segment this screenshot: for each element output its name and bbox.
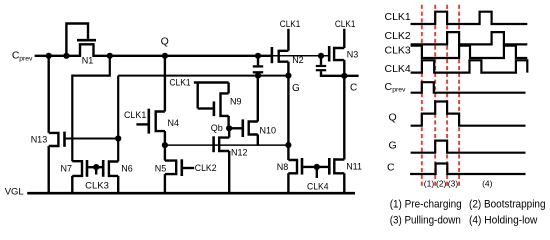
svg-text:prev: prev: [19, 56, 33, 63]
svg-text:N9: N9: [230, 96, 242, 106]
svg-text:N8: N8: [277, 162, 289, 172]
svg-text:CLK4: CLK4: [385, 63, 411, 75]
svg-text:CLK2: CLK2: [195, 163, 217, 173]
svg-text:N12: N12: [231, 148, 248, 158]
svg-text:N11: N11: [346, 161, 362, 171]
svg-text:CLK1: CLK1: [385, 11, 411, 23]
svg-text:CLK1: CLK1: [280, 19, 301, 29]
svg-text:N3: N3: [347, 49, 359, 59]
svg-text:C: C: [387, 162, 395, 174]
svg-text:(2): (2): [436, 178, 447, 188]
svg-text:N2: N2: [292, 55, 304, 65]
svg-text:CLK1: CLK1: [124, 110, 146, 120]
svg-text:CLK1: CLK1: [335, 19, 356, 29]
svg-text:N1: N1: [82, 55, 94, 65]
svg-text:(3): (3): [448, 178, 459, 188]
svg-text:N7: N7: [61, 163, 73, 173]
svg-text:CLK4: CLK4: [307, 182, 329, 192]
svg-text:CLK3: CLK3: [385, 45, 411, 57]
svg-text:Q: Q: [389, 111, 397, 123]
svg-text:CLK2: CLK2: [385, 30, 411, 42]
svg-text:(4) Holding-low: (4) Holding-low: [469, 214, 538, 226]
svg-text:Q: Q: [161, 36, 169, 48]
svg-text:(2) Bootstrapping: (2) Bootstrapping: [469, 199, 546, 211]
svg-text:Qb: Qb: [211, 123, 223, 133]
svg-text:N5: N5: [155, 164, 167, 174]
svg-text:N6: N6: [121, 164, 133, 174]
svg-text:N10: N10: [260, 125, 277, 135]
svg-text:(4): (4): [482, 178, 493, 188]
svg-text:(1): (1): [424, 178, 435, 188]
svg-text:G: G: [389, 140, 397, 152]
svg-text:prev: prev: [392, 86, 406, 93]
svg-text:N4: N4: [168, 118, 180, 128]
svg-text:CLK3: CLK3: [85, 181, 109, 191]
svg-text:G: G: [292, 83, 300, 94]
svg-text:C: C: [350, 82, 357, 93]
svg-text:VGL: VGL: [5, 187, 24, 198]
svg-text:CLK1: CLK1: [169, 78, 190, 88]
svg-text:(1) Pre-charging: (1) Pre-charging: [390, 199, 462, 211]
svg-text:N13: N13: [31, 135, 48, 145]
svg-text:(3) Pulling-down: (3) Pulling-down: [390, 214, 461, 226]
